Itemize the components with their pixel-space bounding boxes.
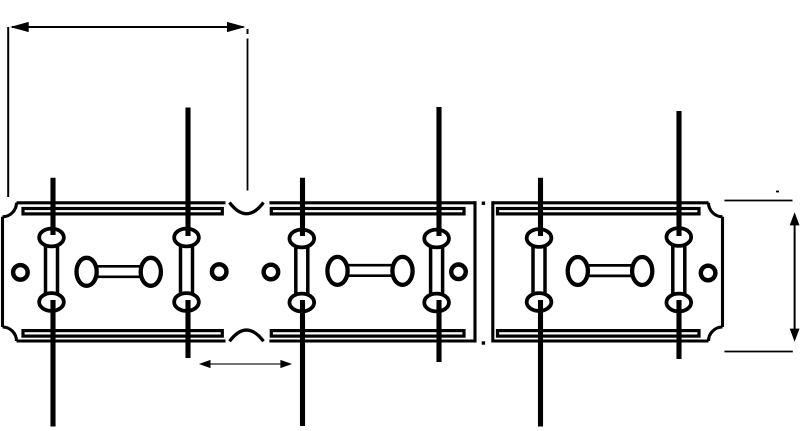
corner arc top-right	[709, 203, 723, 217]
clip A eyelets	[39, 229, 64, 311]
lead wire E top (short)	[538, 178, 543, 236]
right dimension: dash above	[776, 191, 779, 193]
adhesive tape band bottom 1	[23, 331, 222, 337]
clip C bars	[296, 242, 308, 298]
clip E eyelets	[527, 229, 552, 311]
arrowhead right-top	[790, 212, 800, 225]
carrier strip left piece: top edge segment 1	[17, 201, 226, 204]
lead wire D top (long)	[436, 107, 441, 236]
bottom edge segment 2	[269, 339, 476, 342]
clip E bars	[533, 242, 545, 298]
right edge	[721, 217, 724, 327]
lead wire A bottom (long)	[50, 300, 55, 427]
lead wire F top (long)	[676, 111, 681, 236]
lead wire F bottom (short)	[676, 300, 681, 359]
corner arc bottom-left	[3, 327, 17, 341]
clip F bars	[673, 242, 685, 298]
extension line right (dash)	[247, 29, 249, 34]
right dimension: extension line bottom	[724, 351, 792, 353]
lead wire A top (short)	[50, 178, 55, 235]
component body 2 bar	[338, 265, 403, 276]
dimension arrow top (strip pitch), shaft	[12, 26, 244, 28]
adhesive tape band top 1	[23, 209, 222, 214]
arrowhead top-left	[10, 22, 29, 32]
arrowhead top-right	[227, 22, 246, 32]
adhesive tape band bottom 3	[498, 331, 700, 337]
top edge	[493, 201, 709, 204]
bottom edge	[493, 339, 709, 342]
clip C eyelets	[289, 230, 314, 312]
component body 1 end caps	[77, 258, 161, 286]
clip D bars	[431, 242, 443, 298]
extension line right (main)	[247, 39, 249, 191]
extension line left	[7, 27, 9, 197]
lead wire D bottom (short)	[436, 300, 441, 362]
component body 1 bar	[86, 266, 151, 277]
component body 2 end caps	[327, 257, 412, 285]
right dimension: extension line top	[724, 200, 792, 202]
top sprocket notch arc	[230, 203, 264, 214]
component body 3 bar	[578, 265, 643, 276]
clip B eyelets	[174, 229, 199, 311]
sprocket hole 3	[264, 265, 279, 280]
lead wire C bottom (long)	[300, 300, 305, 426]
lead wire E bottom (long)	[538, 300, 543, 427]
arrowhead bottom-left	[199, 360, 211, 368]
adhesive tape band bottom 2	[271, 331, 464, 337]
component body 3 end caps	[568, 257, 653, 285]
left edge	[1, 217, 4, 327]
lead wire C top (short)	[300, 178, 305, 236]
gap cut remnant dot bottom	[482, 341, 485, 344]
adhesive tape band top 3	[498, 209, 700, 214]
sprocket hole 5	[701, 266, 716, 281]
corner arc bottom-right	[709, 327, 723, 341]
clip B bars	[181, 242, 193, 298]
right dimension: vertical shaft	[794, 222, 796, 332]
lead wire B bottom (short)	[185, 300, 190, 358]
arrowhead bottom-right	[280, 360, 292, 368]
lead wire B top (long)	[185, 108, 190, 237]
dimension arrow bottom (cut length), shaft	[202, 363, 289, 365]
sprocket hole 2	[212, 264, 227, 279]
gap cut remnant dot top	[482, 202, 485, 205]
bottom sprocket notch arc	[230, 330, 264, 341]
arrowhead right-bottom	[790, 329, 800, 342]
right edge of left piece (shear cut)	[473, 201, 476, 342]
clip D eyelets	[424, 230, 449, 312]
sprocket hole 4	[451, 265, 466, 280]
sprocket hole 1	[13, 265, 28, 280]
bottom edge segment 1	[17, 339, 226, 342]
carrier strip right piece: left edge (shear cut)	[491, 201, 494, 342]
clip F eyelets	[666, 228, 691, 311]
adhesive tape band top 2	[271, 209, 464, 214]
top edge segment 2	[269, 201, 476, 204]
corner arc top-left	[3, 203, 17, 217]
clip A bars	[46, 242, 58, 298]
